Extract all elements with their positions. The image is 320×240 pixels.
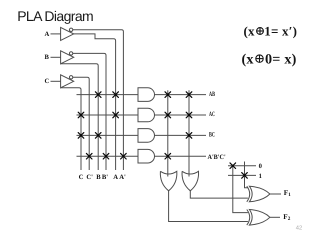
label F2 [283, 213, 291, 222]
product row 1 (AB) wire [77, 94, 139, 96]
OR gate 2 (down) [182, 171, 199, 191]
AND gate 4 [138, 149, 155, 163]
buffer B triangle [61, 51, 74, 64]
svg-text:1= x′): 1= x′) [264, 24, 297, 39]
wire C' from bubble to column [73, 77, 89, 170]
wire A' from bubble to column [73, 30, 124, 170]
crosspoint X or-plane row4 col1 [165, 153, 171, 159]
crosspoint X const1 [242, 173, 248, 179]
svg-text:1: 1 [288, 192, 291, 198]
crosspoint X or-plane row2 col2 [186, 112, 192, 118]
crosspoint X or-plane row1 col1 [165, 92, 171, 98]
wire C from bottom corner to column [61, 88, 81, 170]
svg-text:AC: AC [209, 111, 215, 118]
crosspoint X row3 col B [95, 133, 101, 139]
crosspoint X or-plane row3 col2 [186, 133, 192, 139]
constant 1 wire [228, 174, 256, 176]
input wire C [51, 80, 61, 82]
buffer A triangle [61, 27, 74, 40]
wire 0 to F2 top input [233, 166, 248, 213]
OR gate 1 (down) [160, 171, 177, 191]
svg-text:(x: (x [242, 51, 255, 67]
buffer C bubble [69, 76, 72, 79]
crosspoint X row2 col A [113, 112, 119, 118]
wire B from bottom corner to column [61, 64, 99, 170]
svg-text:C': C' [86, 174, 93, 181]
svg-text:A'B'C': A'B'C' [208, 154, 226, 161]
svg-text:42: 42 [296, 225, 302, 232]
XOR gate F1 [247, 186, 270, 202]
svg-text:2: 2 [288, 216, 291, 222]
label F1 [284, 189, 292, 198]
svg-text:A': A' [119, 174, 126, 181]
formula (x xor 0 = x) line 2 [242, 51, 297, 67]
AND gate 2 [138, 108, 155, 122]
column labels C C' B B' A A' [79, 174, 126, 181]
wire A from tip to column [74, 34, 116, 170]
OR-plane column 1 [167, 90, 169, 176]
constant 0 wire [228, 165, 256, 167]
crosspoint X or-plane row2 col1 [165, 112, 171, 118]
svg-text:0= x): 0= x) [265, 51, 297, 67]
wire 1 to F1 top input [245, 162, 248, 188]
AND gate 1 output wire [155, 94, 207, 96]
input wire A [51, 33, 61, 35]
buffer A bubble [69, 28, 72, 31]
buffer C triangle [61, 75, 74, 88]
OR1 output wire to F2 input [169, 191, 248, 222]
AND gate 4 output wire [155, 155, 207, 157]
XOR gate F2 [247, 210, 270, 226]
crosspoint X row1 col A [113, 92, 119, 98]
product row 4 (A'B'C') wire [77, 155, 139, 157]
xor symbol of formula 2 [256, 55, 263, 62]
F1 output wire [270, 193, 281, 195]
crosspoint X or-plane row1 col2 [186, 92, 192, 98]
svg-text:B': B' [102, 174, 108, 181]
svg-text:B: B [45, 54, 50, 61]
crosspoint X row4 col C' [86, 153, 92, 159]
crosspoint X row4 col A' [121, 153, 127, 159]
crosspoint X const0 [230, 163, 236, 169]
crosspoint X row4 col B' [103, 153, 109, 159]
product row 2 (AC) wire [77, 114, 139, 116]
wire B' from bubble to column [73, 53, 106, 170]
AND gate 3 output wire [155, 134, 207, 136]
crosspoint X row2 col C [78, 112, 84, 118]
svg-text:1: 1 [259, 173, 262, 180]
F2 output wire [270, 216, 280, 218]
crosspoint X row1 col B [95, 92, 101, 98]
svg-text:C: C [79, 174, 84, 181]
AND gate 1 [138, 88, 155, 102]
input wire B [51, 56, 61, 58]
product row 3 (BC) wire [77, 134, 139, 136]
crosspoint X row3 col C [78, 133, 84, 139]
svg-text:AB: AB [209, 91, 215, 98]
formula (x xor 1 = x') line 1 [244, 24, 298, 39]
OR-plane column 2 [188, 90, 190, 176]
svg-text:C: C [45, 78, 50, 85]
svg-text:(x: (x [244, 24, 256, 39]
OR2 output wire to F1 input [190, 191, 248, 198]
xor symbol of formula 1 [257, 28, 264, 35]
svg-text:B: B [96, 174, 101, 181]
svg-text:0: 0 [259, 163, 263, 170]
AND gate 2 output wire [155, 114, 207, 116]
AND gate 3 [138, 129, 154, 143]
buffer B bubble [69, 52, 72, 55]
svg-text:PLA Diagram: PLA Diagram [17, 8, 93, 24]
svg-text:A: A [113, 174, 118, 181]
svg-text:BC: BC [209, 132, 215, 139]
svg-text:A: A [45, 31, 50, 38]
